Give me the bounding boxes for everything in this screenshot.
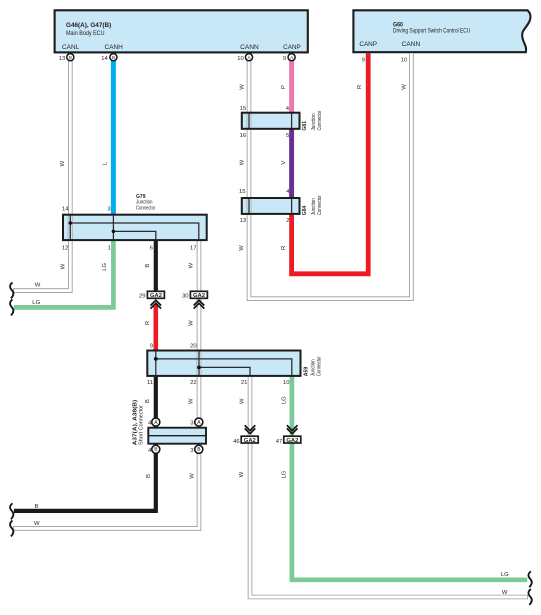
svg-text:W: W: [189, 473, 195, 479]
svg-text:9: 9: [283, 56, 286, 62]
svg-text:W: W: [239, 398, 245, 404]
svg-text:LG: LG: [102, 262, 108, 270]
svg-text:30: 30: [182, 293, 189, 299]
svg-text:17: 17: [190, 246, 197, 252]
svg-text:CANP: CANP: [359, 41, 377, 48]
svg-text:GA2: GA2: [193, 293, 206, 299]
svg-text:CANH: CANH: [105, 44, 123, 51]
svg-text:Junction: Junction: [311, 114, 317, 131]
svg-text:A59: A59: [304, 366, 310, 376]
svg-text:W: W: [60, 263, 66, 269]
svg-text:Junction: Junction: [310, 359, 316, 376]
svg-text:Connector: Connector: [136, 206, 155, 212]
svg-text:12: 12: [62, 246, 69, 252]
svg-text:Connector: Connector: [317, 356, 323, 376]
svg-text:G46(A), G47(B): G46(A), G47(B): [66, 22, 111, 29]
svg-text:B: B: [69, 55, 72, 60]
svg-text:W: W: [401, 84, 407, 90]
svg-text:R: R: [145, 321, 151, 325]
svg-text:10: 10: [401, 58, 408, 64]
svg-text:W: W: [239, 159, 245, 165]
svg-text:LG: LG: [281, 396, 287, 404]
svg-text:LG: LG: [281, 470, 287, 478]
svg-text:CANL: CANL: [62, 44, 80, 51]
svg-text:11: 11: [147, 380, 153, 386]
svg-text:W: W: [35, 282, 41, 288]
svg-text:Junction: Junction: [311, 198, 317, 215]
svg-text:15: 15: [239, 189, 246, 195]
svg-text:Main Body ECU: Main Body ECU: [66, 30, 105, 37]
svg-text:LG: LG: [32, 300, 40, 306]
svg-text:22: 22: [190, 380, 197, 386]
svg-text:9: 9: [150, 344, 153, 350]
svg-text:Connector: Connector: [317, 110, 323, 130]
svg-text:B: B: [146, 474, 152, 478]
svg-text:13: 13: [240, 218, 247, 224]
svg-text:G84: G84: [302, 205, 308, 215]
svg-text:R: R: [357, 85, 363, 89]
svg-text:CANN: CANN: [402, 41, 421, 48]
svg-text:W: W: [60, 160, 66, 166]
svg-text:W: W: [239, 245, 245, 251]
svg-text:W: W: [239, 84, 245, 90]
svg-text:Junction: Junction: [136, 199, 153, 205]
svg-text:GA2: GA2: [286, 438, 299, 444]
svg-text:13: 13: [59, 56, 66, 62]
svg-text:CANN: CANN: [240, 44, 259, 51]
svg-text:29: 29: [139, 293, 146, 299]
svg-text:W: W: [189, 262, 195, 268]
svg-text:16: 16: [240, 133, 247, 139]
svg-text:Driving Support Switch Control: Driving Support Switch Control ECU: [393, 27, 470, 34]
svg-text:A: A: [248, 55, 251, 60]
svg-text:46: 46: [233, 439, 240, 445]
svg-text:1: 1: [108, 246, 111, 252]
svg-text:21: 21: [241, 380, 248, 386]
svg-text:15: 15: [240, 106, 247, 112]
svg-text:14: 14: [101, 56, 108, 62]
svg-text:P: P: [281, 85, 287, 89]
svg-text:W: W: [189, 320, 195, 326]
svg-text:B: B: [35, 504, 39, 510]
svg-text:9: 9: [362, 58, 365, 64]
svg-text:R: R: [281, 246, 287, 250]
svg-text:LG: LG: [501, 572, 509, 578]
svg-text:Connector: Connector: [317, 195, 323, 215]
svg-text:W: W: [189, 398, 195, 404]
svg-text:47: 47: [276, 439, 283, 445]
svg-text:CANP: CANP: [283, 44, 301, 51]
svg-text:W: W: [239, 471, 245, 477]
svg-text:B: B: [145, 399, 151, 403]
svg-text:A: A: [290, 55, 293, 60]
svg-text:10: 10: [237, 56, 244, 62]
svg-text:Short Connector: Short Connector: [138, 405, 144, 445]
svg-text:2: 2: [286, 218, 289, 224]
svg-text:B: B: [112, 55, 115, 60]
svg-text:GA2: GA2: [150, 293, 163, 299]
svg-text:W: W: [34, 521, 40, 527]
svg-text:10: 10: [283, 380, 290, 386]
svg-text:V: V: [281, 161, 287, 165]
svg-text:W: W: [502, 590, 508, 596]
svg-text:14: 14: [62, 207, 69, 213]
svg-text:GA2: GA2: [244, 438, 257, 444]
svg-text:20: 20: [190, 344, 197, 350]
svg-text:G81: G81: [302, 120, 308, 130]
svg-text:B: B: [145, 264, 151, 268]
